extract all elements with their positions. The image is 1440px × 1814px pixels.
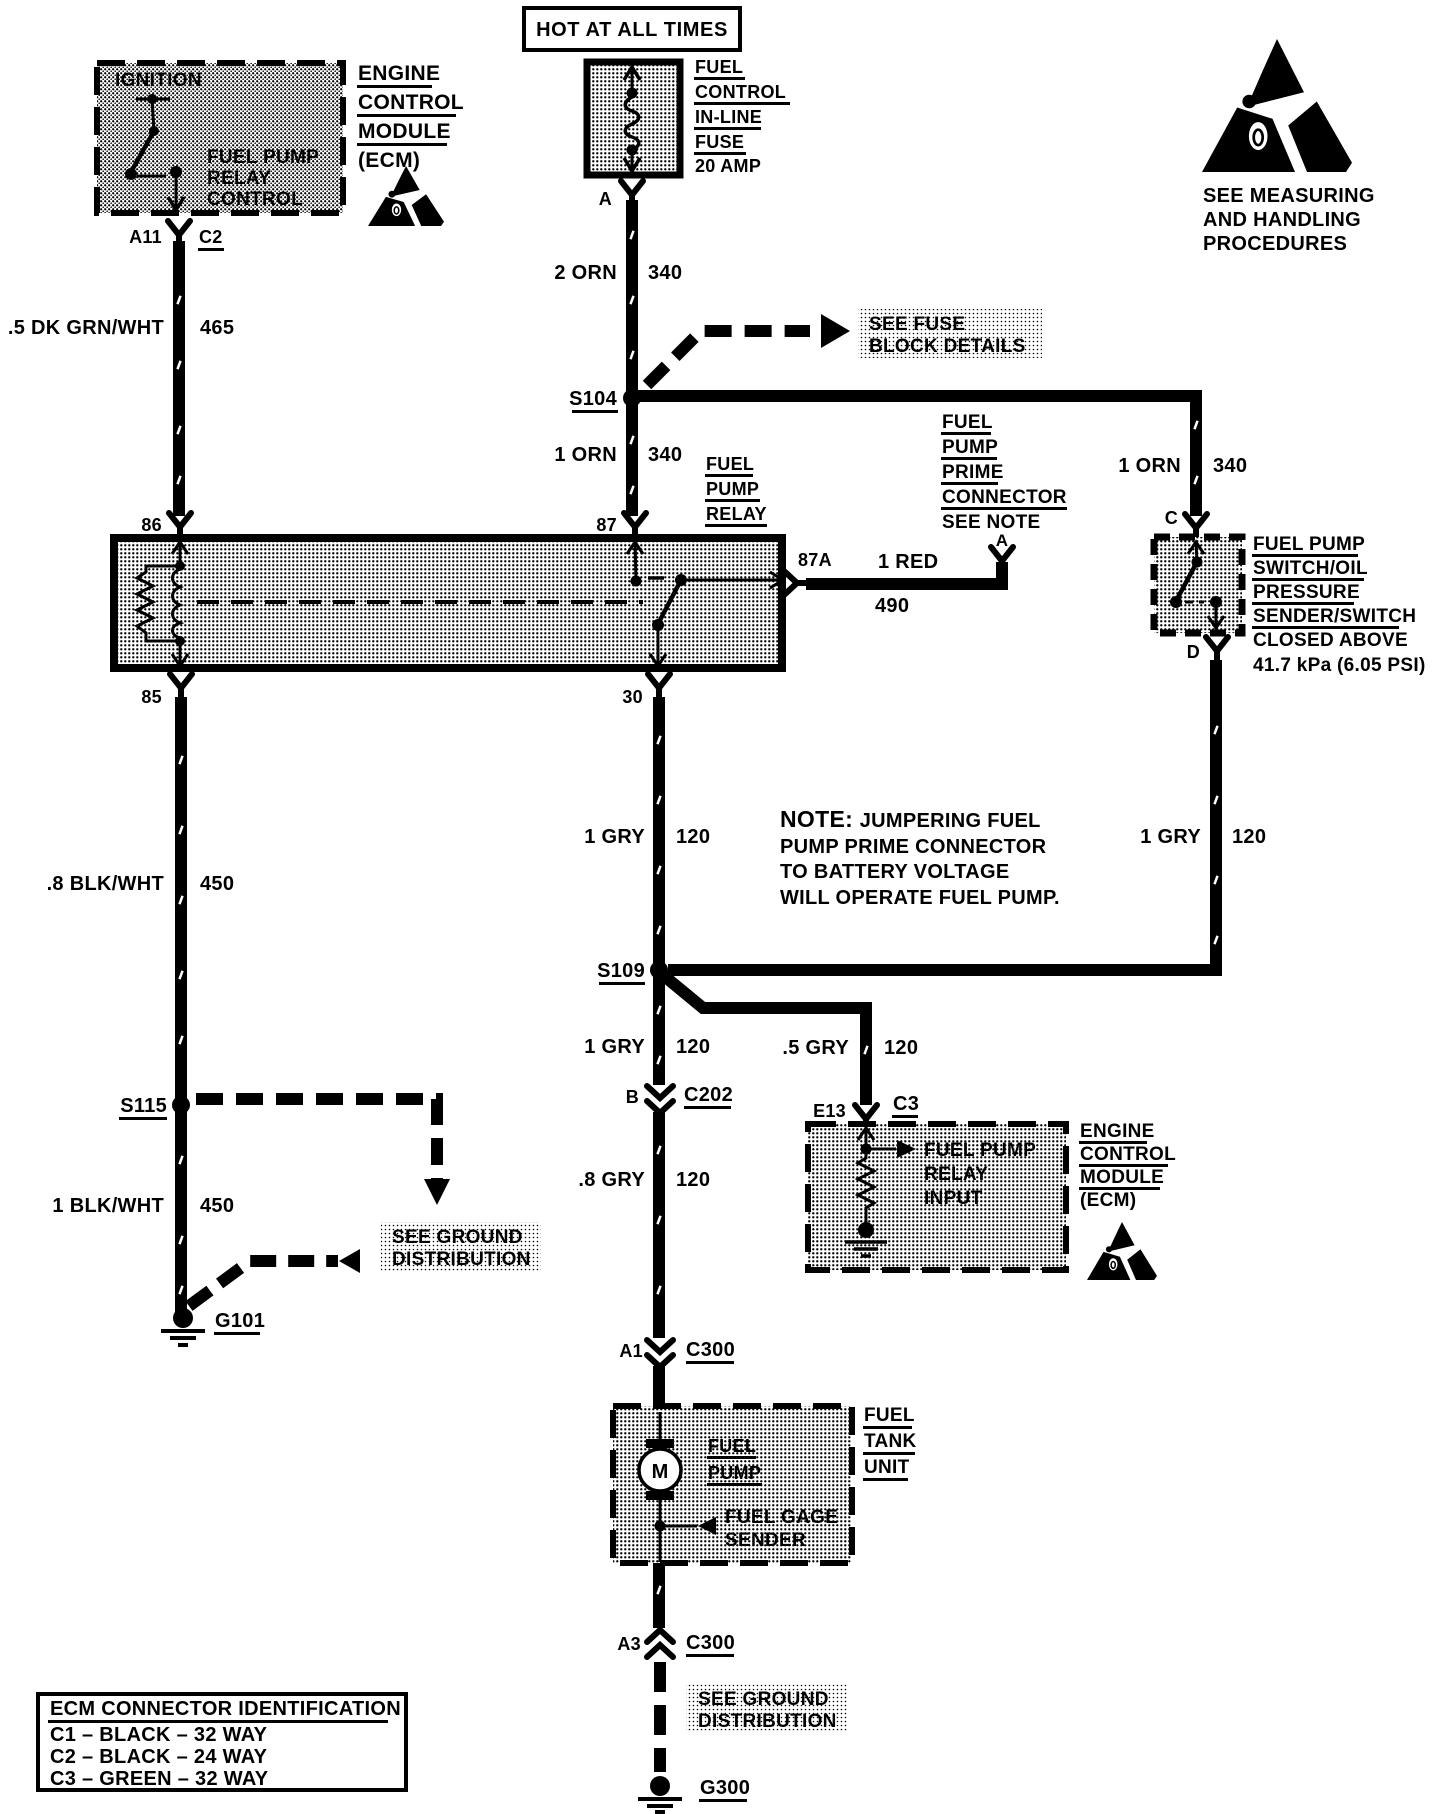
pin A (fuel pump prime connector) [991,531,1013,572]
svg-text:C3: C3 [893,1093,919,1115]
wire .8 GRY 120 (C202 to C300 A1) [653,1112,665,1338]
svg-text:450: 450 [200,1195,234,1217]
svg-text:PRESSURE: PRESSURE [1253,582,1360,603]
svg-text:C2 – BLACK – 24 WAY: C2 – BLACK – 24 WAY [50,1746,268,1768]
wire (dashed) G101 branch to ground distribution [189,1261,338,1306]
svg-text:S115: S115 [120,1095,167,1117]
svg-text:IN-LINE: IN-LINE [695,107,762,127]
svg-text:S104: S104 [569,388,617,410]
pin A1 connector C300 (inline) [619,1339,735,1367]
svg-text:G300: G300 [700,1777,750,1799]
wire label 1 RED 490 [875,551,938,617]
pin 30 [622,674,670,707]
svg-text:BLOCK DETAILS: BLOCK DETAILS [869,336,1026,357]
svg-text:FUEL: FUEL [864,1405,915,1426]
svg-text:SEE GROUND: SEE GROUND [392,1227,523,1248]
svg-text:1 GRY: 1 GRY [584,826,645,848]
svg-text:.5 GRY: .5 GRY [782,1037,849,1059]
svg-text:CLOSED ABOVE: CLOSED ABOVE [1253,630,1408,651]
svg-text:CONNECTOR: CONNECTOR [942,487,1067,508]
wire 1 GRY 120 (S109 to switch pin D) [668,660,1216,970]
fuse label FUEL CONTROL IN-LINE FUSE 20 AMP [694,57,790,176]
relay coil (between 86 and 85) [137,540,188,666]
wire (dashed) S104 to fuse block details [647,331,810,385]
svg-text:RELAY: RELAY [706,504,767,524]
svg-text:120: 120 [676,1036,710,1058]
wire .8 BLK/WHT 450 (relay 85 to S115) [175,697,187,1100]
svg-text:ENGINE: ENGINE [1080,1121,1155,1142]
svg-text:ECM CONNECTOR IDENTIFICATION: ECM CONNECTOR IDENTIFICATION [50,1698,401,1720]
svg-text:MODULE: MODULE [358,120,451,143]
svg-text:A11: A11 [129,227,162,247]
ignition switch symbol inside ECM [125,94,184,210]
svg-text:87: 87 [596,515,617,535]
svg-text:CONTROL: CONTROL [358,91,464,114]
svg-text:UNIT: UNIT [864,1457,910,1478]
node label FUEL PUMP PRIME CONNECTOR SEE NOTE [941,412,1067,533]
relay K (fuel pump relay) body [114,538,782,668]
pin C [1165,508,1207,539]
wire label .5 DK GRN/WHT 465 [8,317,234,339]
node label FUEL GAGE SENDER [725,1507,838,1551]
note JUMPERING FUEL PUMP PRIME CONNECTOR [780,806,1060,909]
ESD static-sensitive symbol (top left, small) [391,166,420,197]
svg-text:A: A [996,531,1009,550]
svg-text:DISTRIBUTION: DISTRIBUTION [698,1711,837,1732]
svg-text:C1 – BLACK – 32 WAY: C1 – BLACK – 32 WAY [50,1724,268,1746]
svg-text:AND HANDLING: AND HANDLING [1203,209,1361,231]
wire (fuel tank unit to C300 A3) [653,1563,665,1628]
wire 1 BLK/WHT 450 (S115 to G101) [175,1110,187,1312]
svg-text:ENGINE: ENGINE [358,62,440,85]
svg-text:PRIME: PRIME [942,462,1004,483]
wire 2 ORN 340 (fuse to S104) [626,200,638,398]
svg-text:RELAY: RELAY [207,168,271,189]
svg-text:DISTRIBUTION: DISTRIBUTION [392,1249,531,1270]
svg-text:1 RED: 1 RED [878,551,938,573]
svg-text:120: 120 [676,826,710,848]
svg-text:340: 340 [648,444,682,466]
svg-text:1 GRY: 1 GRY [1140,826,1201,848]
wire label 1 ORN 340 (center) [554,444,682,466]
module label FUEL TANK UNIT [863,1405,917,1481]
svg-text:SWITCH/OIL: SWITCH/OIL [1253,558,1368,579]
svg-text:FUEL: FUEL [708,1436,756,1456]
svg-text:.5 DK GRN/WHT: .5 DK GRN/WHT [8,317,164,339]
svg-text:C202: C202 [684,1084,733,1106]
svg-text:1 BLK/WHT: 1 BLK/WHT [52,1195,164,1217]
wire label 1 BLK/WHT 450 [52,1195,234,1217]
module label FUEL PUMP (motor) [707,1436,762,1486]
switch label FUEL PUMP SWITCH/OIL PRESSURE SENDER/SWITCH [1252,534,1426,676]
svg-text:FUEL PUMP: FUEL PUMP [1253,534,1365,555]
svg-text:1 ORN: 1 ORN [1118,455,1181,477]
svg-text:SEE GROUND: SEE GROUND [698,1689,829,1710]
wire label .8 BLK/WHT 450 [47,873,235,895]
svg-text:465: 465 [200,317,234,339]
svg-text:20 AMP: 20 AMP [695,156,761,176]
pin E13 connector C3 [813,1093,919,1130]
svg-text:41.7 kPa (6.05 PSI): 41.7 kPa (6.05 PSI) [1253,655,1426,676]
svg-text:2 ORN: 2 ORN [554,262,617,284]
wire label .5 GRY 120 [782,1037,918,1059]
fuel gage sender tap [655,1500,717,1562]
ESD static-sensitive symbol (large) [1247,39,1304,107]
svg-text:C3 – GREEN – 32 WAY: C3 – GREEN – 32 WAY [50,1768,269,1790]
pin 86 [141,513,191,538]
node SEE FUSE BLOCK DETAILS [858,309,1042,358]
wire label 1 GRY 120 (lower center) [584,1036,710,1058]
node S115 [119,1095,190,1120]
svg-text:FUEL GAGE: FUEL GAGE [725,1507,838,1528]
motor M (fuel pump) [639,1412,681,1500]
svg-text:FUEL: FUEL [695,57,743,77]
relay label FUEL PUMP RELAY [705,454,767,527]
decorative wire hatches omitted from labeling [176,230,1218,1594]
pin 87A [784,550,832,595]
fuel tank unit (box) [613,1406,852,1563]
pin A3 connector C300 (inline) [617,1630,735,1657]
svg-text:340: 340 [1213,455,1247,477]
relay switch contact (87/87A/30) [627,540,783,666]
wire label 1 ORN 340 (right) [1118,455,1247,477]
svg-text:120: 120 [884,1037,918,1059]
wire 1 GRY 120 (relay 30 to S109) [653,697,665,963]
module label ENGINE CONTROL MODULE (ECM) [357,62,464,172]
module label FUEL PUMP RELAY CONTROL [207,147,319,210]
svg-text:TO BATTERY VOLTAGE: TO BATTERY VOLTAGE [780,861,1009,883]
svg-text:G101: G101 [215,1310,265,1332]
node HOT AT ALL TIMES (B+ feed) [524,8,740,50]
svg-text:PUMP: PUMP [706,479,759,499]
svg-text:SEE FUSE: SEE FUSE [869,314,965,335]
svg-text:PUMP: PUMP [942,437,998,458]
svg-text:490: 490 [875,595,909,617]
node SEE GROUND DISTRIBUTION (bottom) [686,1684,848,1732]
ECM input circuit (arrow, resistor, ground) [845,1127,916,1256]
svg-text:86: 86 [141,515,162,535]
pin A (fuse output) [599,181,643,209]
ECM fuel pump relay input (module box) [808,1124,1066,1270]
wire (dashed) A3 to ground G300 [654,1662,666,1772]
svg-text:HOT AT ALL TIMES: HOT AT ALL TIMES [536,19,728,41]
svg-text:CONTROL: CONTROL [695,82,786,102]
svg-text:120: 120 [676,1169,710,1191]
svg-text:FUEL PUMP: FUEL PUMP [924,1140,1036,1161]
svg-text:S109: S109 [597,960,645,982]
svg-text:87A: 87A [798,550,832,570]
svg-text:(ECM): (ECM) [1080,1190,1136,1211]
svg-text:.8 BLK/WHT: .8 BLK/WHT [47,873,164,895]
svg-text:E13: E13 [813,1101,846,1121]
svg-text:PUMP: PUMP [708,1463,761,1483]
pin 85 [141,674,192,707]
wire (dashed) S115 branch to ground distribution [196,1099,437,1180]
svg-text:A3: A3 [617,1634,641,1654]
pin A11 connector C2 [129,221,224,251]
svg-text:FUSE: FUSE [695,132,744,152]
wire 1 ORN 340 (S104 to fuel pump switch pin C) [638,396,1196,516]
node SEE GROUND DISTRIBUTION (left) [381,1222,541,1271]
svg-text:PROCEDURES: PROCEDURES [1203,233,1347,255]
svg-text:M: M [652,1461,669,1483]
wire label .8 GRY 120 [578,1169,710,1191]
svg-text:1 GRY: 1 GRY [584,1036,645,1058]
note SEE MEASURING AND HANDLING PROCEDURES [1203,185,1375,255]
switch S (fuel pump switch / oil pressure sender) body [1154,537,1242,633]
svg-text:WILL OPERATE FUEL PUMP.: WILL OPERATE FUEL PUMP. [780,887,1060,909]
node S104 [569,388,641,413]
svg-text:C300: C300 [686,1632,735,1654]
module label ENGINE CONTROL MODULE (ECM) (lower) [1079,1121,1176,1211]
module label FUEL PUMP RELAY INPUT [924,1140,1036,1209]
svg-text:C2: C2 [199,227,223,247]
svg-text:C: C [1165,508,1178,528]
svg-text:.8 GRY: .8 GRY [578,1169,645,1191]
pin D [1187,637,1228,662]
ECM fuel pump relay control (module box) [97,63,343,213]
svg-text:SEE NOTE: SEE NOTE [942,512,1040,533]
svg-text:C300: C300 [686,1339,735,1361]
wire label 1 GRY 120 (right) [1140,826,1266,848]
svg-text:FUEL PUMP: FUEL PUMP [207,147,319,168]
wire 1 ORN 340 (S104 to relay pin 87) [626,404,638,516]
ESD static-sensitive symbol (lower, small) [1108,1222,1135,1252]
ground G300 [638,1776,750,1812]
svg-text:TANK: TANK [864,1431,917,1452]
svg-text:SENDER: SENDER [725,1530,806,1551]
wire .5 DK GRN/WHT 465 (A11 to relay 86) [173,241,185,516]
svg-text:1 ORN: 1 ORN [554,444,617,466]
wire 1 GRY 120 (S109 to C202) [653,976,665,1085]
svg-text:(ECM): (ECM) [358,149,420,172]
svg-text:B: B [626,1087,639,1107]
svg-text:RELAY: RELAY [924,1164,988,1185]
svg-text:NOTE: JUMPERING FUEL: NOTE: JUMPERING FUEL [780,806,1041,832]
ground G101 [161,1308,265,1345]
relay mechanical link (dashed) [197,600,643,604]
svg-text:85: 85 [141,687,162,707]
wire label 1 GRY 120 (upper center) [584,826,710,848]
svg-text:A1: A1 [619,1341,643,1361]
svg-text:FUEL: FUEL [706,454,754,474]
wire 1 RED 490 (87A to prime connector A) [806,562,1002,584]
svg-text:INPUT: INPUT [924,1188,983,1209]
svg-text:SEE MEASURING: SEE MEASURING [1203,185,1375,207]
wire label 2 ORN 340 [554,262,682,284]
svg-text:CONTROL: CONTROL [1080,1144,1176,1165]
svg-text:CONTROL: CONTROL [207,189,303,210]
svg-text:FUEL: FUEL [942,412,993,433]
svg-text:30: 30 [622,687,643,707]
svg-text:120: 120 [1232,826,1266,848]
svg-text:IGNITION: IGNITION [115,70,202,91]
wire .5 GRY 120 (S109 branch to ECM E13) [663,975,866,1105]
pin B connector C202 (inline) [626,1084,733,1113]
wire (C300 A1 into fuel tank unit) [653,1366,665,1412]
svg-text:A: A [599,189,612,209]
svg-text:340: 340 [648,262,682,284]
svg-text:D: D [1187,642,1200,662]
svg-text:SENDER/SWITCH: SENDER/SWITCH [1253,606,1416,627]
pin 87 [596,513,646,538]
svg-text:PUMP PRIME CONNECTOR: PUMP PRIME CONNECTOR [780,836,1047,858]
svg-text:450: 450 [200,873,234,895]
table ECM CONNECTOR IDENTIFICATION [38,1694,406,1790]
fuse FUEL CONTROL IN-LINE FUSE 20 AMP [587,62,680,175]
svg-text:MODULE: MODULE [1080,1167,1164,1188]
node S109 [597,960,668,985]
